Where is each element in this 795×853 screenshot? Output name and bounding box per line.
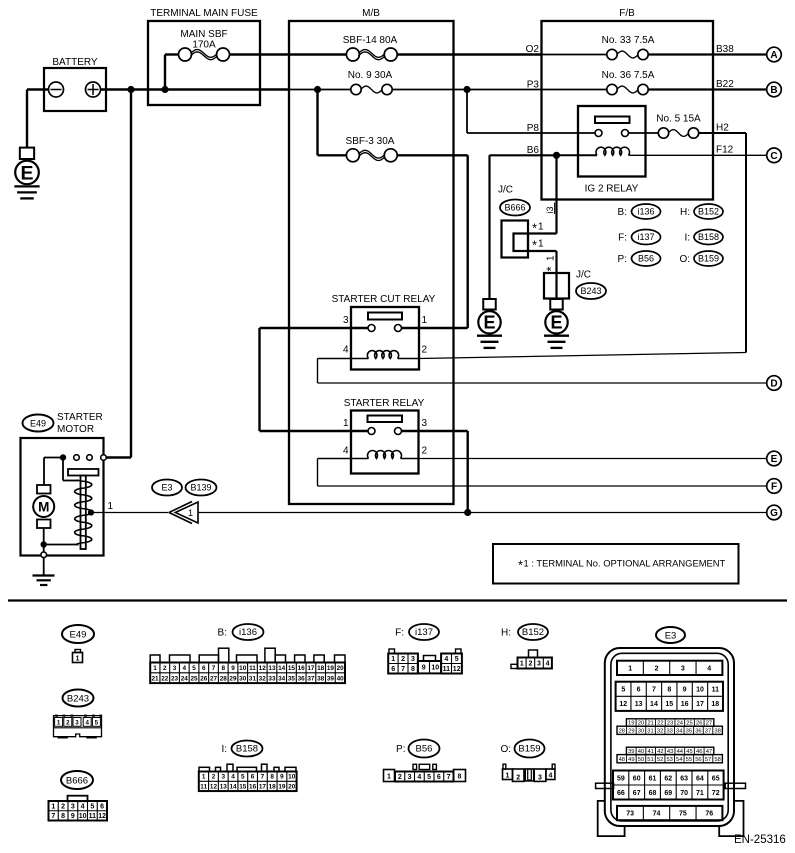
svg-text:3: 3 — [221, 774, 225, 781]
starter relay coil — [351, 451, 419, 459]
svg-text:27: 27 — [210, 675, 218, 682]
svg-text:32: 32 — [657, 728, 663, 734]
wire B22 to B — [648, 79, 767, 90]
svg-text:76: 76 — [705, 811, 713, 818]
connector E3 pinout — [596, 627, 746, 836]
F/B box — [542, 8, 714, 200]
svg-text:21: 21 — [152, 675, 160, 682]
svg-text:E3: E3 — [665, 631, 677, 642]
wire pin2 to E — [419, 458, 767, 460]
svg-text:68: 68 — [649, 790, 657, 797]
svg-text:28: 28 — [619, 728, 625, 734]
svg-text:B159: B159 — [518, 744, 540, 755]
node A — [767, 47, 782, 62]
svg-text:1 : TERMINAL No. OPTIONAL ARRA: 1 : TERMINAL No. OPTIONAL ARRANGEMENT — [524, 558, 726, 569]
svg-text:1: 1 — [51, 803, 55, 810]
svg-text:2: 2 — [212, 774, 216, 781]
wire coil to J/C B666 — [528, 155, 557, 233]
label i3 connector — [545, 203, 555, 215]
svg-text:10: 10 — [431, 665, 439, 672]
svg-text:1: 1 — [108, 501, 114, 512]
svg-text:31: 31 — [249, 675, 257, 682]
legend B: i136 — [618, 204, 661, 219]
terminal main fuse box — [148, 8, 260, 105]
note optional arrangement — [493, 544, 739, 584]
svg-text:71: 71 — [696, 790, 704, 797]
svg-text:B666: B666 — [66, 776, 88, 787]
svg-text:4: 4 — [81, 803, 85, 810]
svg-text:69: 69 — [664, 790, 672, 797]
svg-text:8: 8 — [458, 774, 462, 781]
legend H: B152 — [680, 204, 723, 219]
pin label P8 — [527, 123, 540, 134]
svg-text:19: 19 — [278, 783, 286, 790]
svg-text:12: 12 — [210, 783, 218, 790]
wire B38 to A — [648, 44, 767, 55]
svg-text:6: 6 — [202, 665, 206, 672]
svg-text:14: 14 — [229, 783, 237, 790]
svg-text:6: 6 — [437, 774, 441, 781]
svg-text:3: 3 — [71, 803, 75, 810]
wire pin2 to H2 — [419, 353, 746, 359]
svg-text:37: 37 — [307, 675, 315, 682]
svg-text:63: 63 — [680, 775, 688, 782]
svg-text:12: 12 — [98, 813, 106, 820]
svg-text:BATTERY: BATTERY — [52, 57, 98, 68]
svg-text:1: 1 — [538, 239, 544, 250]
svg-text:34: 34 — [676, 728, 683, 734]
svg-text:No. 33 7.5A: No. 33 7.5A — [602, 35, 655, 46]
svg-text:4: 4 — [85, 719, 89, 726]
svg-text:MAIN SBF: MAIN SBF — [180, 29, 227, 40]
svg-text:1: 1 — [628, 665, 632, 672]
wire pin4 to D — [318, 359, 767, 384]
svg-text:B158: B158 — [698, 232, 719, 242]
svg-text:10: 10 — [696, 687, 704, 694]
svg-text:60: 60 — [633, 775, 641, 782]
pin label P3 — [527, 79, 540, 90]
svg-text:13: 13 — [220, 783, 228, 790]
svg-text:32: 32 — [259, 675, 267, 682]
svg-text:4: 4 — [546, 661, 550, 668]
pin 1 label — [343, 418, 349, 429]
svg-text:8: 8 — [61, 813, 65, 820]
svg-text:B56: B56 — [416, 744, 433, 755]
svg-text:H:: H: — [501, 628, 511, 639]
svg-text:50: 50 — [638, 757, 644, 763]
svg-text:2: 2 — [401, 656, 405, 663]
svg-text:3: 3 — [681, 665, 685, 672]
svg-text:16: 16 — [298, 665, 306, 672]
motor M — [33, 458, 54, 545]
svg-text:3: 3 — [537, 661, 541, 668]
svg-text:1: 1 — [76, 655, 80, 662]
svg-text:3: 3 — [411, 656, 415, 663]
svg-text:53: 53 — [666, 757, 672, 763]
svg-text:14: 14 — [650, 701, 658, 708]
wire pin3 to G node — [402, 431, 468, 513]
wire battery to starter motor — [106, 90, 131, 458]
svg-text:73: 73 — [626, 811, 634, 818]
svg-text:No. 36 7.5A: No. 36 7.5A — [602, 70, 655, 81]
svg-text:170A: 170A — [192, 40, 216, 51]
node SBF-3 tap — [314, 86, 321, 93]
svg-text:8: 8 — [221, 665, 225, 672]
legend O: B159 — [679, 251, 723, 266]
svg-text:70: 70 — [680, 790, 688, 797]
svg-text:P:: P: — [618, 254, 627, 265]
svg-text:IG 2 RELAY: IG 2 RELAY — [585, 184, 639, 195]
svg-text:22: 22 — [161, 675, 169, 682]
svg-text:B152: B152 — [698, 207, 719, 217]
pin 4 label — [343, 446, 349, 457]
svg-text:O:: O: — [500, 744, 511, 755]
svg-text:18: 18 — [317, 665, 325, 672]
svg-text:I:: I: — [221, 744, 227, 755]
svg-text:B139: B139 — [190, 483, 211, 493]
svg-text:4: 4 — [183, 665, 187, 672]
connector i136 pinout — [150, 624, 345, 683]
svg-text:SBF-14 80A: SBF-14 80A — [343, 35, 398, 46]
svg-text:26: 26 — [200, 675, 208, 682]
svg-text:3: 3 — [75, 719, 79, 726]
svg-text:59: 59 — [617, 775, 625, 782]
svg-text:11: 11 — [443, 666, 451, 673]
svg-text:*: * — [518, 559, 523, 573]
svg-text:35: 35 — [288, 675, 296, 682]
svg-text:B22: B22 — [716, 79, 734, 90]
connector B56 pinout — [384, 740, 466, 782]
IG2 contact terminals — [542, 130, 659, 137]
svg-text:14: 14 — [278, 665, 286, 672]
svg-text:E: E — [20, 162, 33, 184]
svg-text:SBF-3 30A: SBF-3 30A — [346, 136, 395, 147]
svg-text:B152: B152 — [522, 627, 544, 638]
svg-text:61: 61 — [649, 775, 657, 782]
node F — [767, 479, 782, 494]
svg-text:15: 15 — [288, 665, 296, 672]
pin 4 label — [343, 345, 349, 356]
svg-text:9: 9 — [280, 774, 284, 781]
pin 2 label — [422, 446, 428, 457]
svg-text:4: 4 — [343, 446, 349, 457]
svg-text:4: 4 — [417, 774, 421, 781]
svg-text:23: 23 — [171, 675, 179, 682]
svg-text:49: 49 — [628, 757, 634, 763]
svg-text:H2: H2 — [716, 123, 729, 134]
svg-text:17: 17 — [259, 783, 267, 790]
svg-text:i137: i137 — [415, 627, 433, 638]
svg-text:5: 5 — [241, 774, 245, 781]
svg-text:B159: B159 — [698, 254, 719, 264]
starter relay contact bar — [368, 416, 403, 423]
svg-text:10: 10 — [79, 813, 87, 820]
svg-text:9: 9 — [422, 665, 426, 672]
svg-text:29: 29 — [229, 675, 237, 682]
label *1 upper — [532, 221, 544, 236]
svg-text:25: 25 — [190, 675, 198, 682]
svg-text:13: 13 — [268, 665, 276, 672]
svg-text:2: 2 — [422, 345, 428, 356]
node P8 tap — [463, 86, 470, 93]
svg-text:1: 1 — [153, 665, 157, 672]
svg-text:31: 31 — [647, 728, 653, 734]
node solenoid pin1 — [88, 509, 94, 515]
svg-text:58: 58 — [714, 757, 720, 763]
svg-text:*: * — [544, 266, 559, 271]
svg-text:1: 1 — [520, 661, 524, 668]
svg-text:No. 5 15A: No. 5 15A — [656, 114, 701, 125]
svg-text:F:: F: — [395, 628, 404, 639]
svg-text:2: 2 — [61, 803, 65, 810]
svg-text:17: 17 — [696, 701, 704, 708]
ground E (B243) — [544, 299, 569, 348]
ground E (B6) — [477, 299, 502, 348]
svg-text:56: 56 — [695, 757, 701, 763]
wire to SBF-3 — [318, 90, 347, 156]
svg-text:4: 4 — [549, 772, 553, 779]
svg-text:5: 5 — [621, 687, 625, 694]
fuse SBF-14 80A — [343, 35, 398, 61]
svg-text:4: 4 — [343, 345, 349, 356]
svg-text:29: 29 — [628, 728, 634, 734]
svg-text:1: 1 — [422, 315, 428, 326]
ground (starter motor) — [33, 558, 55, 585]
wire No.9 leads — [289, 89, 542, 91]
svg-text:A: A — [770, 50, 777, 61]
svg-text:6: 6 — [251, 774, 255, 781]
svg-text:3: 3 — [538, 774, 542, 781]
svg-text:37: 37 — [705, 728, 711, 734]
starter motor solenoid contacts — [44, 454, 106, 460]
battery ground wire — [27, 90, 49, 149]
svg-text:F: F — [771, 482, 777, 493]
wire F12 to C — [713, 145, 767, 156]
svg-text:H:: H: — [680, 207, 690, 218]
svg-text:P8: P8 — [527, 123, 540, 134]
svg-text:1: 1 — [202, 774, 206, 781]
svg-text:8: 8 — [270, 774, 274, 781]
svg-text:B: B — [770, 85, 777, 96]
svg-text:C: C — [770, 151, 777, 162]
figure number EN-25316 — [734, 834, 786, 846]
connector B243 pinout — [54, 690, 103, 739]
svg-text:51: 51 — [647, 757, 653, 763]
svg-text:36: 36 — [298, 675, 306, 682]
legend I: B158 — [684, 230, 723, 245]
IG2 coil — [557, 147, 714, 155]
svg-text:i137: i137 — [637, 232, 654, 242]
pin 3 label — [422, 418, 428, 429]
svg-text:62: 62 — [664, 775, 672, 782]
svg-text:38: 38 — [714, 728, 720, 734]
svg-text:7: 7 — [652, 687, 656, 694]
svg-text:54: 54 — [676, 757, 683, 763]
svg-text:E3: E3 — [161, 483, 172, 493]
svg-text:I:: I: — [684, 233, 690, 244]
svg-text:i136: i136 — [239, 627, 257, 638]
svg-text:O2: O2 — [526, 44, 540, 55]
svg-text:3: 3 — [343, 315, 349, 326]
svg-text:10: 10 — [288, 774, 296, 781]
connector B152 pinout — [501, 624, 552, 669]
svg-text:5: 5 — [95, 719, 99, 726]
pin 1 label — [422, 315, 428, 326]
svg-text:66: 66 — [617, 790, 625, 797]
relay starter relay — [344, 398, 425, 474]
svg-text:64: 64 — [696, 775, 704, 782]
svg-text:35: 35 — [686, 728, 692, 734]
svg-text:1: 1 — [387, 774, 391, 781]
svg-text:7: 7 — [212, 665, 216, 672]
svg-text:P:: P: — [396, 744, 405, 755]
svg-text:2: 2 — [655, 665, 659, 672]
connector B159 pinout — [500, 740, 555, 782]
starter relay contacts — [368, 428, 402, 435]
node B6 coil — [553, 152, 560, 159]
battery — [44, 57, 106, 111]
svg-text:B56: B56 — [638, 254, 654, 264]
svg-text:2: 2 — [422, 446, 428, 457]
node B — [767, 82, 782, 97]
svg-text:7: 7 — [261, 774, 265, 781]
node at battery feed — [127, 86, 134, 93]
svg-text:28: 28 — [220, 675, 228, 682]
svg-text:6: 6 — [391, 666, 395, 673]
svg-text:11: 11 — [200, 783, 207, 790]
wire H2 out — [699, 123, 746, 353]
svg-text:16: 16 — [249, 783, 257, 790]
svg-text:J/C: J/C — [576, 270, 591, 281]
fuse No. 33 7.5A — [542, 35, 655, 59]
wire connector to G node — [199, 512, 767, 514]
svg-text:M: M — [38, 499, 49, 514]
svg-text:18: 18 — [711, 701, 719, 708]
connector i137 pinout — [388, 624, 462, 674]
svg-text:55: 55 — [686, 757, 692, 763]
svg-text:1: 1 — [506, 772, 510, 779]
svg-text:2: 2 — [66, 719, 70, 726]
svg-text:12: 12 — [619, 701, 627, 708]
starter cut relay contacts — [368, 325, 402, 332]
fuse No. 5 15A — [656, 114, 701, 139]
svg-text:20: 20 — [288, 783, 296, 790]
svg-text:TERMINAL MAIN FUSE: TERMINAL MAIN FUSE — [150, 8, 258, 19]
svg-text:40: 40 — [337, 675, 345, 682]
wire pin3 to starter relay pin1 — [260, 328, 369, 431]
pin 1 label motor — [108, 501, 114, 512]
pin label O2 — [526, 44, 540, 55]
svg-text:74: 74 — [653, 811, 661, 818]
svg-text:M/B: M/B — [362, 8, 380, 19]
svg-text:5: 5 — [192, 665, 196, 672]
svg-text:F:: F: — [618, 233, 627, 244]
svg-text:38: 38 — [317, 675, 325, 682]
svg-text:3: 3 — [408, 774, 412, 781]
svg-text:30: 30 — [239, 675, 247, 682]
svg-text:8: 8 — [411, 666, 415, 673]
svg-text:F/B: F/B — [619, 8, 635, 19]
fuse No. 36 7.5A — [542, 70, 655, 95]
wire motor pin1 to connector — [91, 512, 169, 514]
wire pin4 to F — [318, 459, 767, 487]
svg-text:65: 65 — [712, 775, 720, 782]
svg-text:E: E — [483, 313, 495, 333]
svg-text:4: 4 — [707, 665, 711, 672]
node D — [767, 376, 782, 391]
svg-text:B666: B666 — [504, 203, 525, 213]
legend P: B56 — [618, 251, 661, 266]
svg-text:10: 10 — [239, 665, 247, 672]
svg-text:3: 3 — [173, 665, 177, 672]
svg-text:8: 8 — [667, 687, 671, 694]
svg-text:1: 1 — [538, 222, 544, 233]
svg-text:18: 18 — [269, 783, 277, 790]
wire motor to solenoid bottom — [41, 541, 79, 547]
pin 3 label — [343, 315, 349, 326]
svg-text:D: D — [770, 379, 777, 390]
svg-text:9: 9 — [71, 813, 75, 820]
svg-text:16: 16 — [681, 701, 689, 708]
label *1 lower — [532, 238, 544, 253]
junction connector J/C B243 — [544, 270, 606, 300]
svg-text:1: 1 — [188, 508, 193, 518]
svg-text:17: 17 — [307, 665, 315, 672]
svg-text:5: 5 — [90, 803, 94, 810]
svg-text:57: 57 — [705, 757, 711, 763]
node E — [767, 451, 782, 466]
wire SBF-14 output to F/B O2 — [397, 53, 541, 55]
svg-text:15: 15 — [665, 701, 673, 708]
svg-text:E: E — [771, 454, 778, 465]
battery B+ wire — [101, 88, 290, 90]
label *1 rotated — [544, 255, 559, 272]
svg-text:2: 2 — [163, 665, 167, 672]
solenoid coil — [63, 458, 92, 546]
svg-text:B243: B243 — [580, 286, 601, 296]
svg-text:G: G — [770, 508, 778, 519]
svg-text:EN-25316: EN-25316 — [734, 834, 786, 846]
relay IG2 box — [578, 106, 646, 195]
svg-text:30: 30 — [638, 728, 644, 734]
svg-text:E49: E49 — [70, 630, 87, 641]
starter cut relay contact bar — [368, 313, 402, 320]
wire J/C B666 to J/C B243 — [528, 251, 557, 273]
svg-text:34: 34 — [278, 675, 286, 682]
svg-text:75: 75 — [679, 811, 687, 818]
node G junction — [464, 509, 471, 516]
svg-text:F12: F12 — [716, 145, 734, 156]
svg-text:1: 1 — [57, 719, 61, 726]
svg-text:13: 13 — [635, 701, 643, 708]
M/B box — [289, 8, 454, 504]
svg-text:33: 33 — [268, 675, 276, 682]
svg-text:4: 4 — [444, 656, 448, 663]
wire pin1 feed — [402, 327, 468, 329]
svg-text:9: 9 — [231, 665, 235, 672]
svg-text:3: 3 — [422, 418, 428, 429]
svg-text:i136: i136 — [637, 207, 654, 217]
svg-text:E: E — [550, 313, 562, 333]
svg-text:P3: P3 — [527, 79, 540, 90]
svg-text:72: 72 — [712, 790, 720, 797]
pin 2 label — [422, 345, 428, 356]
svg-text:52: 52 — [657, 757, 663, 763]
wire P8 feed — [467, 90, 542, 134]
svg-text:11: 11 — [712, 687, 720, 694]
svg-text:1: 1 — [391, 656, 395, 663]
relay starter cut relay — [332, 294, 436, 370]
